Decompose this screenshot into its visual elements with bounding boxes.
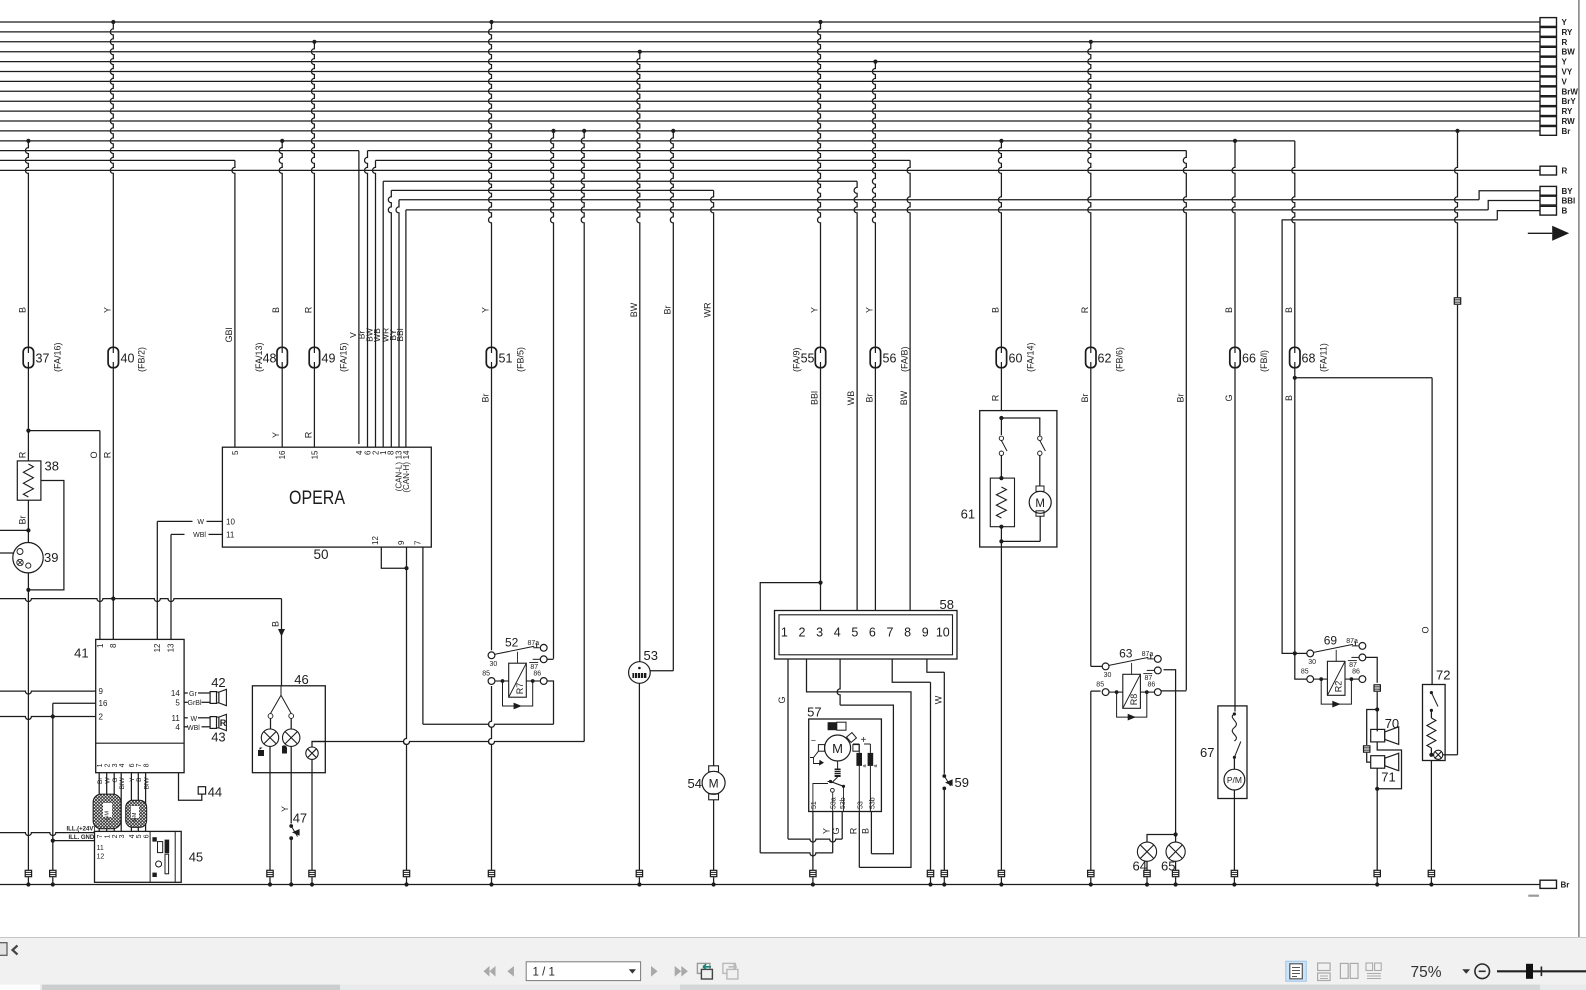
svg-text:53b: 53b [869,797,876,809]
svg-text:R: R [303,306,313,313]
svg-text:1: 1 [97,763,104,767]
lamp 64 [1137,842,1156,861]
svg-text:Y: Y [1562,58,1568,67]
svg-text:BBl: BBl [1562,197,1576,206]
wire bus line 11 (RW) [0,120,1540,122]
connector 44 [198,787,205,794]
svg-text:7: 7 [97,834,104,838]
svg-text:37: 37 [36,352,50,366]
svg-text:86: 86 [533,671,541,678]
wire 51 drop (Y) x=491.5 [489,20,493,24]
svg-text:5: 5 [851,626,858,640]
svg-text:9: 9 [922,626,929,640]
svg-text:7: 7 [887,626,894,640]
svg-text:Y: Y [481,307,491,313]
svg-text:(FB/2): (FB/2) [137,347,147,372]
svg-text:R7: R7 [515,683,525,695]
terminal box Y line 5 [1540,57,1557,66]
svg-text:B: B [1224,307,1234,313]
svg-text:41: 41 [74,646,88,661]
wire 60 below connector to box61 [1000,368,1002,411]
connector strip box 58 [775,611,958,660]
bundle wire WR to OPERA pin8 x=391.3 [388,190,391,447]
svg-text:7: 7 [136,763,143,767]
svg-text:75%: 75% [1411,964,1442,981]
connector 66 (FB/1) [1230,347,1240,367]
hatched connector housing right [126,800,147,827]
svg-text:M: M [1035,498,1045,510]
svg-text:OPERA: OPERA [289,488,345,509]
svg-text:16: 16 [278,450,287,459]
blower resistor in 61 [999,476,1003,480]
wire 53a (Y) [832,812,834,853]
wire 40 drop (Y) x=113.3 [111,20,115,24]
svg-text:10: 10 [226,518,235,527]
wires lamps 64/65 to ground [1146,861,1148,870]
svg-text:(FB/6): (FB/6) [1115,347,1125,372]
svg-text:Br: Br [1080,393,1090,402]
wire resistor 72 to ground [1430,761,1432,871]
wire relay63-86 feed x=1186.3 [1183,151,1186,691]
wire lamp3 feed from Br line x=584.2 [582,129,586,133]
wire bus line 8 (BrW) [0,90,1540,92]
svg-text:53: 53 [644,648,658,663]
wire OPERA pin12 jog to pin9 wire [381,547,406,568]
lamp feed bus y=598.6 [0,599,282,602]
wire relay52-87 feed from Br line x=553.5 [551,129,555,133]
svg-text:M: M [832,741,843,756]
terminal box VY line 6 [1540,67,1557,76]
svg-text:62: 62 [1098,352,1112,366]
svg-text:85: 85 [482,671,490,678]
lamp box 46 [252,686,325,773]
svg-text:B: B [271,621,281,627]
wire 48 drop (B) x=282.2 [280,139,284,143]
wire box41 pin9 from left edge [0,691,96,694]
svg-text:W: W [197,519,204,526]
svg-text:8: 8 [904,626,911,640]
svg-text:4: 4 [175,723,180,732]
svg-text:(FA/15): (FA/15) [339,342,349,372]
svg-text:39: 39 [44,550,58,565]
svg-text:GM: GM [105,811,111,820]
svg-text:68: 68 [1302,352,1316,366]
wire bus line 12 (Br) [0,130,1540,132]
svg-text:(FA/16): (FA/16) [53,342,63,372]
svg-text:11: 11 [97,845,104,852]
svg-text:RY: RY [1562,107,1573,116]
svg-text:10: 10 [936,626,950,640]
svg-text:B: B [18,307,28,313]
page right border [1578,0,1580,937]
svg-text:6: 6 [869,626,876,640]
svg-text:GrBl: GrBl [188,700,202,707]
svg-text:WR: WR [703,302,713,317]
speaker 42 with wires [184,692,188,694]
terminal box BW line 4 [1540,47,1557,56]
svg-text:45: 45 [189,850,203,865]
wire 56 below connector to box58 pin6 [874,368,876,611]
horn 70 [1371,729,1385,742]
svg-text:B: B [136,778,143,782]
lamp L2 in box 46 [290,718,292,729]
svg-text:72: 72 [1436,668,1450,683]
sidebar tab box top-left [0,943,7,956]
svg-text:87a: 87a [1142,651,1154,658]
svg-text:Br: Br [18,515,28,524]
drive shaft and cam in 57 [837,761,839,769]
motor M in box 57 [825,735,851,761]
svg-text:R: R [990,394,1000,401]
wire box41 to connector 44 [179,773,202,801]
wire 53 right feed (Br) from Br line x=673.3 [671,129,675,133]
switch right in 61 [1038,436,1042,440]
wire bus line 9 (BrY) [0,100,1540,102]
svg-text:86: 86 [1352,669,1360,676]
wire 58-pin8 feed x=910.1 [907,160,910,610]
wire 53b (G) [841,812,843,840]
ground bus bottom [0,884,1540,886]
park contact stripe symbol in 57 [828,722,837,730]
wire branch O from node to box41 pin1 [28,430,100,432]
wire box58 pin7 to ground [892,659,930,683]
box41 to box45 harness wires [98,773,100,832]
svg-text:51: 51 [811,801,818,809]
svg-text:12: 12 [371,536,380,545]
brush bracket in 57 [810,751,821,763]
svg-text:BW: BW [1562,48,1576,57]
horn 71 [1371,756,1385,769]
plug arrow on lamp feed wire [278,629,285,637]
svg-text:WB: WB [846,391,856,406]
wire bus line 2 (RY) [0,31,1540,33]
tiny pictogram icons in box 46 [258,748,264,757]
first page button [484,966,490,977]
svg-text:70: 70 [1385,716,1399,731]
svg-text:BlW: BlW [119,777,126,790]
svg-text:Y: Y [271,432,281,438]
svg-text:5: 5 [136,834,143,838]
svg-text:43: 43 [211,730,225,745]
svg-text:R: R [1080,306,1090,313]
radio connector box 45 [95,831,182,882]
wire box41 pin2 from left edge [0,717,96,720]
svg-text:(CAN-H): (CAN-H) [402,462,411,493]
switch 47 [289,824,293,828]
terminal box V line 7 [1540,77,1557,86]
svg-text:50: 50 [314,547,329,562]
svg-text:8: 8 [109,643,118,648]
svg-text:5: 5 [231,450,240,455]
next page button [651,966,658,977]
wire 49 below connector to OPERA pin15 [313,368,315,448]
svg-text:9: 9 [397,540,406,545]
wire bus line 5 (Y) [0,61,1540,63]
bundle wire BW to OPERA pin2 x=375.5 [373,160,376,447]
svg-text:46: 46 [294,672,308,687]
wire 55 drop (Y) x=820.5 [818,20,822,24]
svg-text:(FA/9): (FA/9) [792,347,802,372]
sidebar collapse chevron [13,946,18,955]
svg-text:ILL. GND: ILL. GND [69,835,95,841]
svg-text:59: 59 [955,775,969,790]
svg-text:87a: 87a [1346,638,1358,645]
svg-text:3: 3 [816,626,823,640]
svg-text:38: 38 [45,459,59,474]
heater unit box 61 [980,411,1057,547]
zoom dropdown arrow [1462,969,1470,974]
wire branch to resistor72 (O) y=377.8 [1295,377,1432,379]
svg-text:49: 49 [322,352,336,366]
wire net to OPERA pin4 (y=150.6 left) [0,150,359,152]
svg-text:47: 47 [293,811,307,826]
wire OPERA pin11 (WBl) to box41 pin13 [171,533,185,535]
svg-text:−: − [811,736,816,746]
wire net GBl to OPERA pin5 (y=160.4 left) [0,159,235,161]
wire net OPERA pin14 to BBl box (y=209.9) [406,209,1488,211]
wire OPERA pin7 to relay52 pin86 [422,547,424,724]
svg-text:57: 57 [807,705,821,720]
svg-text:71: 71 [1381,770,1395,785]
terminal box BY [1540,186,1557,195]
wire bus line 4 (BW) [0,51,1540,53]
wire ILL +24V from left edge [0,833,95,836]
switch 59 [942,774,946,778]
svg-text:RW: RW [1562,117,1576,126]
wire box58 pin9 (W) through switch 59 [927,659,944,672]
wire net OPERA pin6 to relay63-86 (y=150.6 right) [368,150,1187,152]
bundle wire BY to OPERA pin13 x=399.0 [396,200,399,447]
svg-text:7: 7 [414,540,423,545]
svg-text:1: 1 [105,834,112,838]
svg-text:Y: Y [102,307,112,313]
svg-text:Br: Br [864,393,874,402]
svg-text:G: G [112,778,119,783]
wire 66 below connector to pump 67 [1234,368,1236,712]
connector 60 (FA/14) [996,347,1006,367]
wire 72 right feed from Br line x=1457.5 [1455,129,1459,133]
wire 68 node to relay69 pins 30/85 [1293,651,1297,655]
single page view button (active) [1286,961,1307,981]
svg-text:GM: GM [132,812,138,821]
svg-text:P/M: P/M [1227,775,1242,785]
wire stub from left edge to socket 39 [0,552,13,554]
svg-text:W: W [933,695,943,704]
svg-text:54: 54 [688,776,702,791]
OPERA control unit box 50 [222,447,431,547]
wire bus line 10 (RY) [0,110,1540,112]
svg-text:87a: 87a [528,640,540,647]
svg-text:B: B [860,828,870,834]
wire net OPERA pin8 to motor54 (y=190.4) [391,189,713,191]
svg-text:Br: Br [481,393,491,402]
wire relay63 pin85 to ground [1091,690,1101,692]
svg-text:(FA/11): (FA/11) [1319,343,1329,372]
svg-text:14: 14 [171,689,180,698]
wire box58 pin1 (G) down [787,659,789,839]
terminal box R [1540,166,1557,175]
wiper motor box 57 [809,719,882,812]
svg-text:WBl: WBl [193,532,206,539]
svg-text:15: 15 [310,450,319,459]
svg-text:8: 8 [143,763,150,767]
wire 55 below connector to box58 pin3 [820,368,822,611]
wire 37 below connector to resistor 38 [27,368,29,461]
wire 51 below connector to relay52 pin30 [491,368,493,651]
svg-text:2: 2 [105,763,112,767]
svg-text:BrW: BrW [1562,87,1579,96]
wire lamp box 46 feed (B) [281,599,283,686]
wire 60 drop (B) x=1001.4 [999,139,1003,143]
svg-text:B: B [1562,207,1568,216]
svg-text:60: 60 [1009,352,1023,366]
svg-text:6: 6 [143,834,150,838]
wire resistor38 bypass loop [31,481,64,590]
svg-text:2: 2 [112,834,119,838]
wire box58 pin4 to 57 pin53b [837,659,840,705]
zoom out button [1475,964,1490,979]
svg-text:B: B [271,307,281,313]
terminal box Br bottom right [1540,880,1557,888]
wire lamp L3 to ground [311,759,313,870]
bundle wire WB to OPERA pin1 x=383.2 [382,181,384,447]
svg-text:11: 11 [171,714,180,723]
svg-text:R8: R8 [1129,694,1139,706]
ground connector 37 chain [25,870,31,876]
svg-text:R: R [1562,38,1568,47]
svg-text:R: R [303,431,313,438]
wire 53b2 (B) [870,812,872,854]
resistor 38 [17,461,41,500]
connector 56 (FA/8) [870,347,880,367]
wire 53 (R) [858,812,860,868]
wire 55 branch to 57 pin53a [760,583,820,853]
svg-text:(FB/5): (FB/5) [516,347,526,372]
svg-text:3: 3 [119,834,126,838]
last page button [675,966,682,977]
ground connector pin16 chain [50,870,56,876]
svg-text:O: O [1421,626,1431,633]
blower motor in 61 [1036,486,1044,491]
wire lamp L2 through switch 47 to bus [290,746,292,823]
wire OPERA pin10 (W) to box41 pin12 [157,520,192,522]
lamp L1 in box 46 [270,718,272,729]
wire 53 to ground [638,683,640,870]
svg-text:G: G [831,827,841,834]
wire pump 67 to ground [1233,799,1235,871]
svg-text:30: 30 [490,661,498,668]
cam lever switch in 57 [831,782,844,787]
svg-text:RY: RY [1562,28,1573,37]
wire bus line 6 (VY) [0,71,1540,73]
connector 48 (FA/13) [277,347,287,367]
wire relay63 pin87 to lamps 64/65 [1164,670,1176,835]
svg-text:12: 12 [153,643,162,652]
svg-text:Gr: Gr [189,691,197,698]
svg-text:Y: Y [822,828,832,834]
wire below socket 39 to ground [27,573,29,870]
svg-text:VY: VY [1562,68,1573,77]
wire stub from left edge to node y=530.4 [0,529,28,531]
wire net B (y=141) [0,140,1295,142]
switch left in 61 [999,436,1003,440]
svg-text:30: 30 [1308,659,1316,666]
svg-text:40: 40 [121,352,135,366]
wires below box 57 [812,812,814,871]
svg-text:85: 85 [1096,682,1104,689]
svg-text:14: 14 [402,450,411,459]
wire bus line 7 (V) [0,80,1540,82]
cigar lighter 53 [629,662,651,684]
svg-text:1: 1 [781,626,788,640]
wire GBl drop to OPERA pin5 x=234.9 [232,160,235,447]
terminal box RY line 10 [1540,107,1557,116]
svg-text:W: W [191,716,198,723]
connector 62 (FB/6) [1086,347,1096,367]
wire B-box feed x=1282.1 [1282,220,1295,654]
svg-text:R: R [848,827,858,834]
svg-text:O: O [89,451,99,458]
page number combo box [526,962,640,981]
two page view button [1340,963,1348,978]
wire relay52 pin85 to ground [489,686,492,870]
wire horn 70 loop to bus junction [1377,742,1401,789]
wire inside 57 from cam lever down [813,782,844,812]
connector 40 (FB/2) [108,347,118,367]
svg-text:13: 13 [167,643,176,652]
connector 37 (FA/16) [23,347,33,367]
svg-text:WBl: WBl [187,725,200,732]
svg-text:Y: Y [864,307,874,313]
svg-text:85: 85 [1301,669,1309,676]
svg-text:Br: Br [1561,881,1570,890]
wire 58-pin5 feed x=857.1 [854,181,857,610]
svg-text:Y: Y [1562,18,1568,27]
svg-text:Br: Br [97,777,104,784]
svg-text:(FA/B): (FA/B) [900,346,910,372]
svg-text:9: 9 [99,687,104,696]
inline connector on horn wire [1374,685,1380,691]
wire box61 to ground [1000,547,1002,870]
svg-text:(FA/14): (FA/14) [1026,342,1036,372]
terminal box Br line 12 [1540,127,1557,136]
svg-text:4: 4 [119,763,126,767]
svg-text:16: 16 [99,699,108,708]
svg-text:R: R [102,451,112,458]
svg-text:BW: BW [629,302,639,317]
wire 49 drop (R) x=314.4 [312,40,316,44]
wire motor 54 to ground [713,800,715,870]
wire net B-box line (y=219.9) [1282,219,1498,221]
svg-text:Br: Br [1175,393,1185,402]
svg-text:GBl: GBl [224,327,234,342]
wire OPERA pin9 to ground [404,547,407,870]
motor 54 [709,766,719,772]
svg-text:G: G [777,696,787,703]
svg-text:11: 11 [226,531,235,540]
svg-text:61: 61 [961,507,975,522]
wire lamp L1 to ground [269,746,271,870]
wire bus line 3 (R) [0,41,1540,43]
wire 37 drop (B) x=28.4 [26,139,30,143]
svg-text:(FB/l): (FB/l) [1259,350,1269,372]
connector 49 (FA/15) [309,347,319,367]
wire ILL GND [53,840,95,842]
svg-text:R2: R2 [1334,681,1344,693]
wire net R (y=170.4) [0,169,1540,171]
zoom slider [1497,970,1586,972]
svg-text:R: R [1562,167,1568,176]
